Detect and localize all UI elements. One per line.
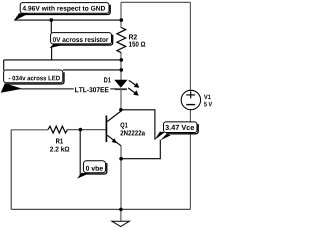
callout LED box [4, 70, 63, 83]
callout Vce tail lower [160, 134, 171, 140]
label 2N2222a [120, 130, 145, 135]
callout 0V shadow [53, 35, 112, 45]
node dot base [79, 128, 83, 132]
node dot collector [119, 108, 123, 112]
leader 0V box top [50, 20, 52, 33]
callout vbe shadow [86, 163, 107, 174]
leader 0V box bottom [51, 47, 53, 60]
callout vbe tail [77, 173, 90, 179]
leader LED box top-left drop [3, 60, 5, 71]
callout 4.96V shadow [23, 5, 110, 15]
D1 cathode bar [115, 88, 127, 90]
callout Vce shadow [166, 124, 198, 134]
label 2.2 kohm [50, 146, 69, 151]
node dot ground [119, 208, 123, 212]
label 150 ohm [129, 42, 145, 47]
wire left to R1 [11, 129, 48, 131]
ground [112, 221, 129, 226]
LED light arrow 1 [129, 80, 136, 85]
wire left rail [10, 130, 12, 210]
callout 4.96V tail [14, 13, 29, 20]
callout Vce box [164, 122, 198, 133]
leader Vce emitter [121, 140, 160, 159]
leader vbe [79, 130, 81, 176]
label R1 [56, 139, 63, 144]
label R2 [129, 34, 137, 39]
node dot V+ [120, 18, 124, 22]
wire bottom rail [11, 208, 190, 210]
callout vbe text [86, 166, 103, 171]
node dot R2 bottom [120, 58, 124, 62]
label 5 V [204, 102, 212, 107]
transistor Q1 emitter lead [107, 135, 122, 146]
wire top rail [121, 1, 190, 3]
leader to LED anode node [63, 69, 122, 71]
ground stub [120, 209, 122, 221]
callout 4.96V text [23, 6, 106, 12]
wire base lead [68, 129, 106, 131]
resistor R1 [48, 126, 67, 133]
callout 4.96V box [20, 3, 109, 14]
leader for callout 4.96V [14, 19, 121, 21]
label LTL-307EE [75, 87, 109, 92]
wire right rail upper [189, 2, 191, 90]
callout 0V tail [50, 44, 65, 48]
transistor Q1 collector lead [107, 111, 122, 122]
callout Vce tail upper [155, 132, 165, 140]
callout LED text [9, 76, 60, 81]
callout 0V box [51, 33, 112, 44]
callout Vce text [165, 125, 194, 130]
transistor Q1 base bar [105, 116, 107, 143]
label Q1 [120, 123, 127, 129]
wire right rail lower [189, 110, 191, 210]
node dot LED anode [120, 68, 124, 72]
wire emitter down [120, 146, 122, 210]
source V1 [181, 90, 200, 109]
node dot leader junction [50, 18, 54, 22]
label D1 [104, 77, 111, 82]
diode D1 LED [115, 80, 127, 87]
callout LED tail [1, 83, 23, 93]
wire R2 to D1 [120, 53, 122, 81]
wire D1 to collector [120, 89, 122, 111]
V1 minus sign [186, 104, 195, 106]
V1 plus sign [186, 94, 195, 96]
callout LED shadow [6, 72, 64, 84]
transistor Q1 emitter arrowhead [112, 138, 118, 143]
leader to LED cathode [20, 88, 115, 90]
wire V+ branch top [120, 2, 122, 28]
callout 0V text [53, 37, 108, 42]
leader Vce collector [121, 110, 155, 140]
node dot emitter [119, 157, 123, 161]
resistor R2 [117, 28, 126, 53]
leader to R2 bottom node [4, 59, 122, 61]
label LTL-307EE background [74, 85, 110, 92]
LED light arrow 2 [128, 88, 135, 93]
callout vbe box [83, 161, 105, 173]
label V1 [204, 95, 211, 100]
